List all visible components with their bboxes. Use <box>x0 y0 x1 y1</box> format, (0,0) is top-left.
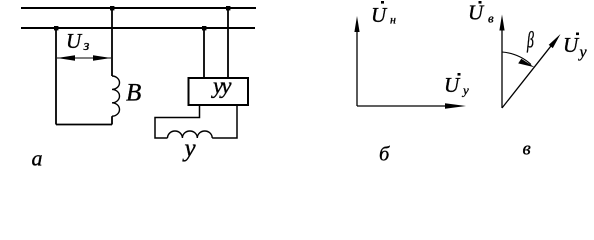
wire top of B branch <box>111 8 113 76</box>
dot of Un <box>381 1 384 4</box>
dot of Uy (v) <box>576 33 579 36</box>
wire from coil U to box bottom-right <box>212 105 237 138</box>
dimension arrowhead left <box>57 55 75 60</box>
dot of Uy (b) <box>458 73 461 76</box>
wire into box from bus1 <box>227 8 229 78</box>
arrowhead Uy diagonal <box>549 34 561 48</box>
vector Uy shaft (diagonal) <box>502 45 552 108</box>
dimension line Uz <box>57 57 111 59</box>
svg-text:U: U <box>66 29 83 53</box>
angle arc beta <box>502 52 531 65</box>
svg-text:б: б <box>379 144 390 166</box>
svg-text:в: в <box>523 139 531 160</box>
winding U (control coil) <box>168 131 213 138</box>
dot of Uv <box>479 1 482 4</box>
dimension arrowhead right <box>93 55 111 60</box>
vector diagram v: vertical axis Uv shaft <box>501 28 503 108</box>
wire into box from bus2 <box>203 28 205 78</box>
svg-text:U: U <box>371 3 388 27</box>
vector Uy shaft (horizontal) <box>357 105 450 107</box>
arrowhead Uy <box>445 103 466 109</box>
wire below coil B <box>111 116 113 124</box>
wire left branch vertical <box>55 28 57 125</box>
junction on bus1 at x=112 <box>110 6 114 10</box>
arrowhead Un <box>354 16 359 32</box>
wire bottom of B loop <box>56 124 112 126</box>
svg-text:U: U <box>444 73 461 97</box>
svg-text:у: у <box>461 83 469 98</box>
svg-text:у: у <box>578 44 588 61</box>
control unit box UU <box>189 78 249 105</box>
svg-text:у: у <box>182 135 197 162</box>
vector diagram b: vertical axis Un shaft <box>356 28 358 106</box>
svg-text:з: з <box>83 38 90 54</box>
svg-text:U: U <box>563 33 580 57</box>
svg-text:в: в <box>488 11 494 26</box>
arrowhead of arc <box>518 59 534 68</box>
junction on bus2 at x=204 <box>202 26 206 30</box>
junction on bus2 at x=56 <box>54 26 58 30</box>
arrowhead Uv <box>499 15 504 31</box>
svg-text:U: U <box>468 1 485 25</box>
svg-text:β: β <box>526 28 534 53</box>
svg-text:н: н <box>390 13 396 27</box>
svg-text:а: а <box>32 146 43 168</box>
bus line 1 (top) <box>21 7 256 9</box>
wire from box bottom-left to coil U <box>155 105 200 138</box>
junction on bus1 at x=228 <box>226 6 230 10</box>
svg-text:уу: уу <box>211 73 232 98</box>
bus line 2 <box>21 27 255 29</box>
svg-text:В: В <box>126 80 141 107</box>
winding B (excitation coil) <box>112 76 119 116</box>
